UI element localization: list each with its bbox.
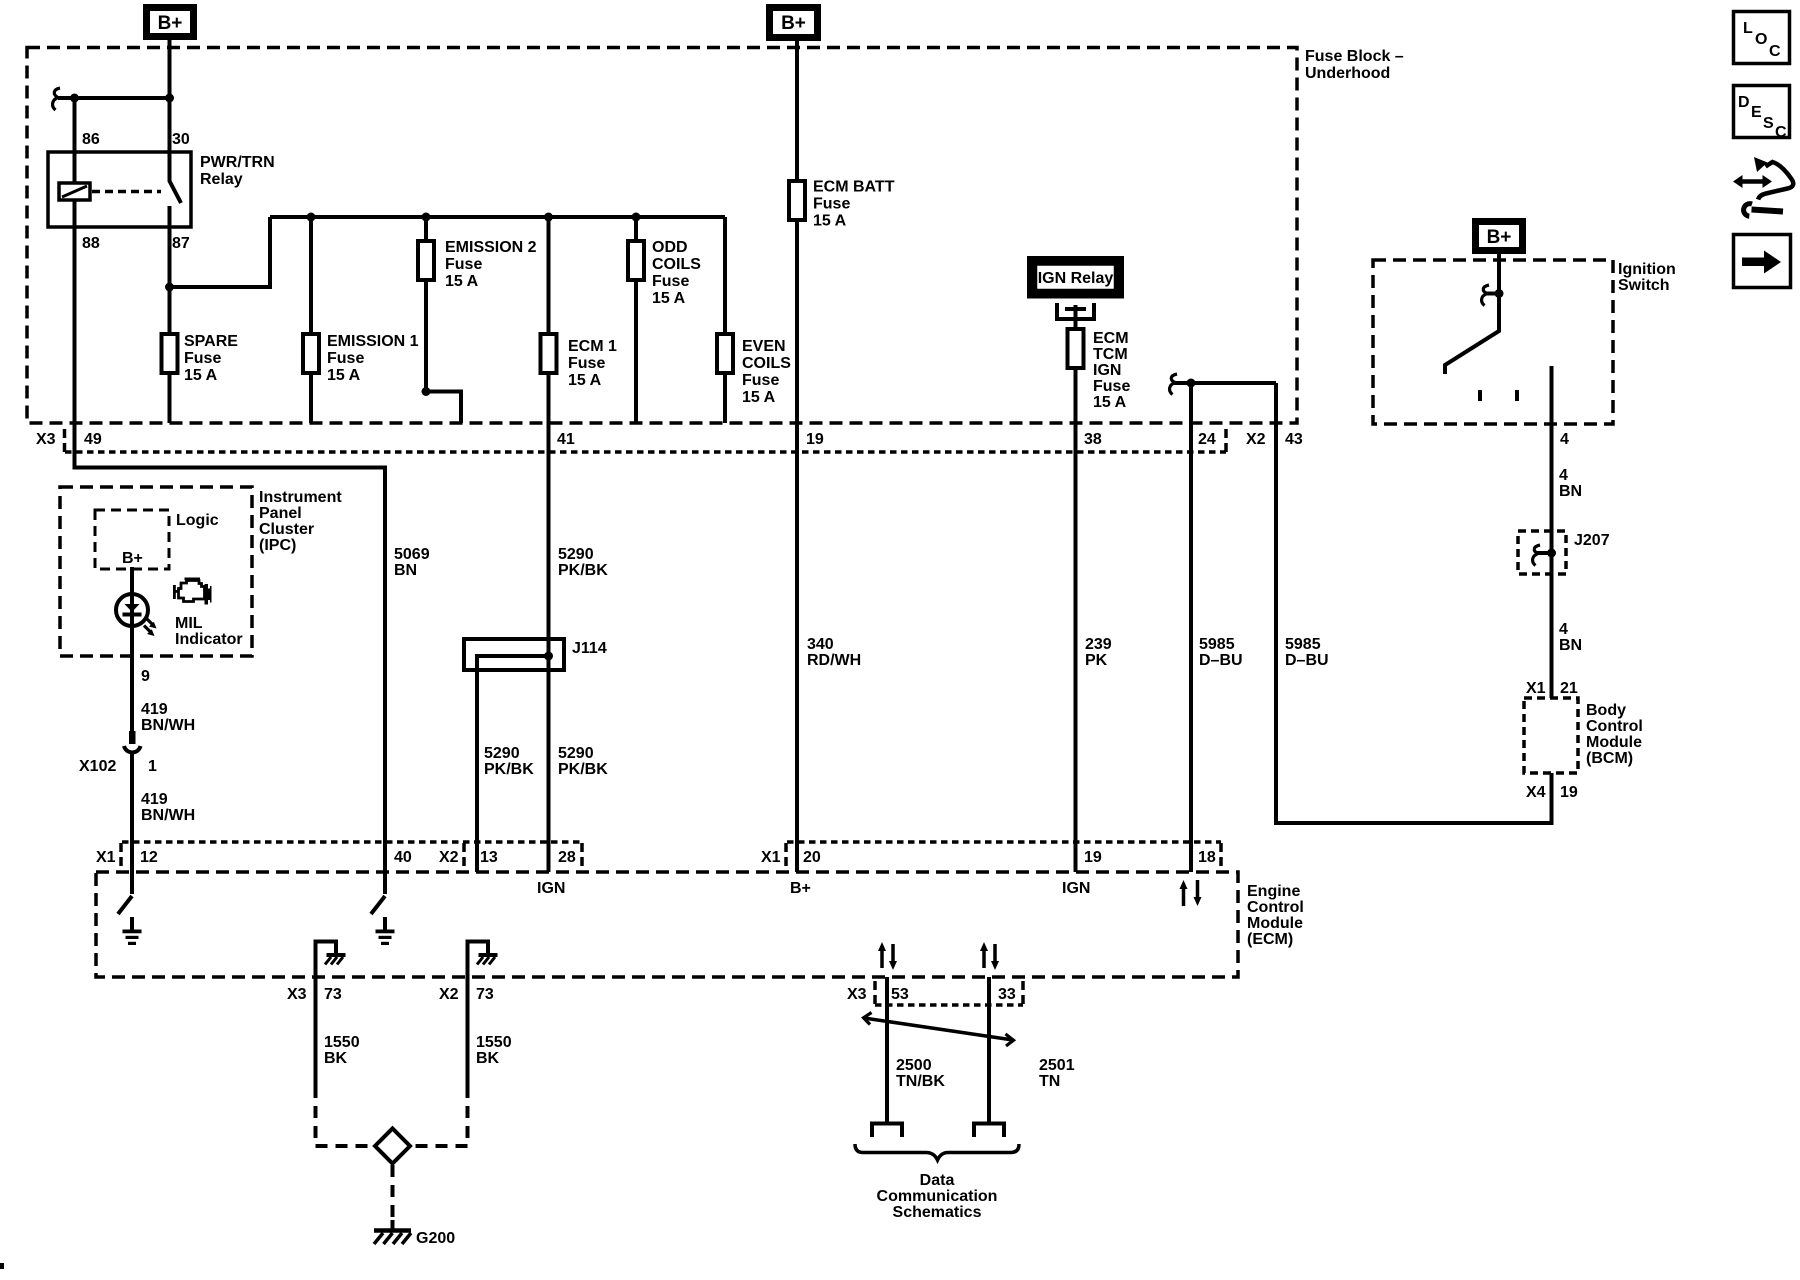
svg-text:B+: B+ [122, 550, 143, 567]
fuse ECM 1 15A [541, 217, 618, 389]
svg-text:Communication: Communication [877, 1188, 998, 1205]
svg-text:Relay: Relay [200, 171, 243, 188]
svg-text:30: 30 [172, 131, 190, 148]
svg-text:5290: 5290 [558, 745, 594, 762]
svg-text:419: 419 [141, 701, 168, 718]
svg-text:86: 86 [82, 131, 100, 148]
svg-text:X2: X2 [1246, 431, 1266, 448]
relay socket bracket [1057, 303, 1094, 319]
terminator (2500) [872, 1124, 902, 1138]
svg-text:PK/BK: PK/BK [484, 761, 534, 778]
ignition switch contact tick 1 [1478, 390, 1482, 401]
ECM data arrows pin 33 [980, 942, 999, 970]
svg-text:1550: 1550 [324, 1034, 360, 1051]
icon forward arrow box [1734, 235, 1791, 288]
svg-text:88: 88 [82, 235, 100, 252]
MIL indicator LED [116, 594, 157, 636]
svg-text:BN: BN [1559, 483, 1582, 500]
svg-text:MIL: MIL [175, 615, 203, 632]
svg-text:SPARE: SPARE [184, 333, 238, 350]
svg-text:15 A: 15 A [652, 290, 686, 307]
brace data communication [855, 1144, 1019, 1160]
svg-text:Fuse: Fuse [327, 350, 364, 367]
splice J207 dashed box [1518, 531, 1610, 574]
wire ECM 33 serial data [987, 977, 991, 1122]
wire X102 to ECM pin 12 [130, 754, 134, 894]
icon diagnostic arrows and wrench [1733, 157, 1793, 216]
svg-text:Logic: Logic [176, 512, 219, 529]
svg-text:5985: 5985 [1199, 636, 1235, 653]
ECM bottom connector separator X3-53 [873, 981, 877, 1005]
junction emission2 [422, 213, 431, 222]
ECM internal ground strap pin 73 X3 [316, 942, 346, 978]
svg-text:Fuse: Fuse [813, 196, 850, 213]
svg-text:33: 33 [998, 986, 1016, 1003]
ECM connector dotted line left [122, 840, 582, 844]
relay contact blade [170, 152, 182, 203]
svg-text:Fuse: Fuse [445, 256, 482, 273]
svg-text:BK: BK [476, 1050, 500, 1067]
svg-text:RD/WH: RD/WH [807, 652, 861, 669]
B+ terminal B3 (ignition switch) [1476, 222, 1523, 251]
svg-text:239: 239 [1085, 636, 1112, 653]
svg-text:D: D [1738, 94, 1750, 111]
svg-text:15 A: 15 A [327, 367, 361, 384]
svg-text:(ECM): (ECM) [1247, 931, 1293, 948]
svg-text:Fuse Block –: Fuse Block – [1305, 48, 1404, 65]
svg-text:1550: 1550 [476, 1034, 512, 1051]
svg-text:X3: X3 [36, 431, 56, 448]
ECM connector X2 separator [462, 843, 466, 867]
connector separator right of 24 [1224, 429, 1228, 453]
svg-text:IGN: IGN [537, 880, 565, 897]
svg-text:5290: 5290 [558, 546, 594, 563]
fuse ODD COILS 15A [628, 217, 701, 423]
svg-text:49: 49 [84, 431, 102, 448]
wire ECM TCM IGN fuse to connector 38 and ECM pin 19 [1074, 368, 1078, 872]
wire ECM X3-73 to G200 [314, 977, 318, 1086]
svg-text:PK/BK: PK/BK [558, 562, 608, 579]
svg-text:Fuse: Fuse [742, 372, 779, 389]
G200 splice diamond [375, 1129, 410, 1164]
svg-text:15 A: 15 A [568, 372, 602, 389]
hook connector (ignition feed stub) [1170, 374, 1177, 395]
wire ECM BATT fuse to connector 19 and ECM pin 20 [795, 220, 799, 872]
svg-text:18: 18 [1198, 849, 1216, 866]
svg-text:73: 73 [476, 986, 494, 1003]
wire connector 43 to BCM X4-19 [1276, 383, 1552, 823]
terminator (2501) [974, 1124, 1004, 1138]
svg-text:B+: B+ [158, 13, 183, 34]
svg-text:X2: X2 [439, 849, 459, 866]
ignition switch dashed box [1373, 260, 1613, 424]
svg-text:28: 28 [558, 849, 576, 866]
junction ignition switch [1495, 289, 1504, 298]
svg-text:J207: J207 [1574, 532, 1610, 549]
svg-text:419: 419 [141, 791, 168, 808]
svg-text:PK/BK: PK/BK [558, 761, 608, 778]
ECM data arrows pin 18 [1180, 880, 1202, 906]
svg-text:BN/WH: BN/WH [141, 807, 195, 824]
svg-text:O: O [1755, 31, 1767, 48]
ECM connector X1 separator [119, 843, 123, 867]
wire 86-30 link [58, 96, 170, 100]
svg-text:15 A: 15 A [742, 389, 776, 406]
svg-text:Module: Module [1247, 915, 1303, 932]
svg-text:Panel: Panel [259, 505, 302, 522]
ECM connector separator right of 28 [580, 843, 584, 867]
svg-text:Control: Control [1586, 718, 1643, 735]
ECM connector dotted line right [787, 840, 1221, 844]
svg-text:C: C [1775, 124, 1787, 141]
svg-text:20: 20 [803, 849, 821, 866]
svg-text:21: 21 [1560, 680, 1578, 697]
svg-text:4: 4 [1559, 467, 1568, 484]
svg-text:Underhood: Underhood [1305, 65, 1390, 82]
svg-text:340: 340 [807, 636, 834, 653]
svg-text:B+: B+ [1487, 227, 1512, 248]
svg-text:G200: G200 [416, 1230, 455, 1247]
B+ terminal B1 (to PWR/TRN relay) [147, 8, 194, 37]
ground G200 [374, 1220, 455, 1247]
svg-text:TN: TN [1039, 1073, 1060, 1090]
junction at pin 86 feed [70, 94, 79, 103]
svg-text:9: 9 [141, 668, 150, 685]
svg-text:X1: X1 [96, 849, 116, 866]
svg-text:PWR/TRN: PWR/TRN [200, 154, 275, 171]
svg-text:4: 4 [1560, 431, 1569, 448]
svg-text:19: 19 [806, 431, 824, 448]
svg-text:38: 38 [1084, 431, 1102, 448]
ground (ECM pin 12) [123, 917, 142, 945]
svg-text:Fuse: Fuse [652, 273, 689, 290]
svg-text:EMISSION 2: EMISSION 2 [445, 239, 537, 256]
svg-text:Fuse: Fuse [1093, 378, 1130, 395]
svg-text:EVEN: EVEN [742, 338, 786, 355]
svg-text:EMISSION 1: EMISSION 1 [327, 333, 419, 350]
svg-text:X102: X102 [79, 758, 116, 775]
connector X3 separator [63, 429, 67, 453]
ECM bottom connector dotted line [875, 1003, 1023, 1007]
svg-text:1: 1 [148, 758, 157, 775]
icon LOC box [1734, 12, 1790, 64]
svg-text:COILS: COILS [742, 355, 791, 372]
svg-text:J114: J114 [572, 640, 607, 657]
svg-text:BN: BN [394, 562, 417, 579]
fuse SPARE 15A [162, 287, 239, 423]
svg-text:PK: PK [1085, 652, 1108, 669]
ECM connector X1 separator (right group) [784, 843, 788, 867]
svg-text:53: 53 [891, 986, 909, 1003]
wire ECM1 fuse to connector 41 and ECM pin 28 [547, 373, 551, 872]
svg-text:87: 87 [172, 235, 190, 252]
ECM internal switch pin 40 [371, 896, 385, 914]
ignition switch blade [1445, 294, 1499, 375]
junction pin 24 branch [1187, 379, 1196, 388]
G200 dashed wire left [316, 1086, 374, 1146]
svg-text:Body: Body [1586, 702, 1626, 719]
wire ECM X2-73 to G200 [466, 977, 470, 1086]
svg-text:D–BU: D–BU [1285, 652, 1329, 669]
svg-text:4: 4 [1559, 621, 1568, 638]
svg-text:COILS: COILS [652, 256, 701, 273]
svg-text:X4: X4 [1526, 784, 1546, 801]
svg-text:(BCM): (BCM) [1586, 750, 1633, 767]
svg-text:IGN Relay: IGN Relay [1038, 270, 1114, 287]
svg-text:73: 73 [324, 986, 342, 1003]
ignition switch contact tick 2 [1515, 390, 1519, 401]
svg-text:40: 40 [394, 849, 412, 866]
Body Control Module dashed box [1524, 698, 1578, 773]
fuse EMISSION 1 15A [303, 217, 419, 423]
svg-text:19: 19 [1084, 849, 1102, 866]
wire B+ to ECM BATT fuse [795, 41, 799, 181]
svg-text:5069: 5069 [394, 546, 430, 563]
svg-text:(IPC): (IPC) [259, 537, 296, 554]
svg-text:15 A: 15 A [184, 367, 218, 384]
svg-text:X3: X3 [847, 986, 867, 1003]
svg-text:Schematics: Schematics [893, 1204, 982, 1221]
svg-text:Module: Module [1586, 734, 1642, 751]
svg-text:2501: 2501 [1039, 1057, 1075, 1074]
svg-text:43: 43 [1285, 431, 1303, 448]
B+ terminal B2 (ECM BATT feed) [770, 8, 818, 38]
fuse bus [270, 215, 725, 219]
svg-text:41: 41 [557, 431, 575, 448]
G200 dashed wire down [391, 1165, 395, 1224]
fuse ECM TCM IGN 15A [1068, 305, 1131, 411]
ECM connector separator right of 18 [1219, 843, 1223, 867]
wire pin 87 jog up to fuse bus [170, 206, 271, 287]
ECM data arrows pin 53 [878, 942, 897, 970]
svg-text:BN: BN [1559, 637, 1582, 654]
relay coil [59, 98, 90, 200]
hook connector (ignition switch stub) [1482, 285, 1499, 306]
svg-text:ODD: ODD [652, 239, 688, 256]
svg-text:Indicator: Indicator [175, 631, 243, 648]
svg-text:D–BU: D–BU [1199, 652, 1243, 669]
fuse EMISSION 2 15A [418, 217, 537, 392]
svg-text:X1: X1 [1526, 680, 1546, 697]
crossing reference arrow [864, 1013, 1014, 1047]
wire pin 88 to connector 49 then jog to ECM pin 40 [75, 200, 386, 894]
Engine Control Module dashed box [96, 872, 1238, 977]
wire B+ into ignition switch [1497, 254, 1501, 294]
page artifact speck [0, 1263, 4, 1269]
ECM internal switch pin 12 [118, 896, 132, 914]
ECM internal ground strap pin 73 X2 [468, 942, 498, 978]
IPC logic dashed box [95, 510, 169, 569]
junction odd coils [632, 213, 641, 222]
svg-text:Fuse: Fuse [184, 350, 221, 367]
wire IPC B+ to MIL indicator [130, 567, 134, 731]
svg-text:Control: Control [1247, 899, 1304, 916]
splice J114 [464, 639, 607, 670]
svg-text:TN/BK: TN/BK [896, 1073, 945, 1090]
junction ecm1 [544, 213, 553, 222]
svg-text:X3: X3 [287, 986, 307, 1003]
wire ECM X3-53 serial data [885, 977, 889, 1122]
ground (ECM pin 40) [376, 917, 395, 945]
svg-text:5985: 5985 [1285, 636, 1321, 653]
svg-text:BK: BK [324, 1050, 348, 1067]
fuse EVEN COILS 15A [717, 217, 791, 423]
svg-text:5290: 5290 [484, 745, 520, 762]
svg-text:BN/WH: BN/WH [141, 717, 195, 734]
svg-text:C: C [1769, 43, 1781, 60]
svg-text:19: 19 [1560, 784, 1578, 801]
svg-text:IGN: IGN [1062, 880, 1090, 897]
junction spare fuse branch [165, 283, 174, 292]
ECM bottom connector separator right of 33 [1021, 981, 1025, 1005]
svg-text:S: S [1763, 115, 1774, 132]
relay coil-contact dashed link [92, 190, 161, 194]
svg-text:ECM: ECM [1093, 330, 1129, 347]
svg-text:12: 12 [140, 849, 158, 866]
wire B+ to relay pin 30 [168, 40, 172, 152]
svg-text:Instrument: Instrument [259, 489, 342, 506]
svg-text:TCM: TCM [1093, 346, 1128, 363]
svg-text:2500: 2500 [896, 1057, 932, 1074]
svg-text:Engine: Engine [1247, 883, 1300, 900]
fuse block connector row dotted line [65, 450, 1226, 454]
svg-text:Cluster: Cluster [259, 521, 314, 538]
svg-text:IGN: IGN [1093, 362, 1121, 379]
svg-text:15 A: 15 A [445, 273, 479, 290]
IGN Relay label box [1031, 260, 1120, 295]
svg-text:X2: X2 [439, 986, 459, 1003]
svg-text:Ignition: Ignition [1618, 261, 1676, 278]
wire J114 to ECM pin 13 [475, 668, 479, 872]
svg-text:B+: B+ [790, 880, 811, 897]
svg-text:Fuse: Fuse [568, 355, 605, 372]
hook connector (coil feed stub) [53, 88, 60, 110]
junction emission2 jog [422, 387, 431, 396]
svg-text:ECM 1: ECM 1 [568, 338, 617, 355]
icon DESC box [1734, 86, 1790, 142]
fuse block - underhood dashed box [27, 48, 1297, 424]
connector X102 [79, 731, 157, 775]
G200 dashed wire right [412, 1086, 468, 1146]
wire ignition feed to pins 24 and 43 [1174, 381, 1276, 385]
fuse ECM BATT 15A [789, 179, 895, 230]
svg-text:ECM BATT: ECM BATT [813, 179, 895, 196]
svg-text:13: 13 [480, 849, 498, 866]
svg-text:Data: Data [920, 1172, 955, 1189]
engine icon [173, 578, 212, 605]
junction at pin 30 feed [165, 94, 174, 103]
svg-text:24: 24 [1198, 431, 1216, 448]
wire connector 24 to ECM pin 18 [1189, 383, 1193, 872]
Instrument Panel Cluster dashed box [60, 487, 252, 656]
wire ignition pin 4 to BCM X1-21 [1550, 366, 1554, 698]
svg-text:Switch: Switch [1618, 277, 1670, 294]
svg-text:15 A: 15 A [813, 213, 847, 230]
svg-text:L: L [1743, 20, 1753, 37]
relay PWR/TRN box [48, 152, 191, 227]
svg-text:E: E [1751, 104, 1762, 121]
emission2 jog wire [426, 392, 461, 424]
svg-text:B+: B+ [781, 13, 806, 34]
junction emission1 [307, 213, 316, 222]
svg-text:15 A: 15 A [1093, 394, 1127, 411]
svg-text:X1: X1 [761, 849, 781, 866]
